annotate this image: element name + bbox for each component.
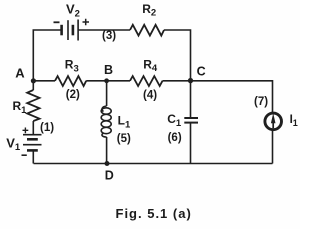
node A: [31, 78, 36, 83]
wire: V2 to R2: [78, 29, 130, 31]
node D: [105, 161, 110, 166]
node C: [188, 78, 193, 83]
capacitor C1: [184, 118, 198, 123]
battery V1 minus sign: [22, 154, 27, 156]
resistor R2: [130, 25, 164, 36]
wire: bottom rail: [34, 163, 273, 165]
battery V1 plus sign: [23, 128, 29, 134]
wire: current source bottom to bottom rail: [272, 131, 274, 164]
svg-text:R4: R4: [143, 57, 158, 74]
resistor R4: [130, 76, 163, 86]
wire: node A up to top-left corner then right to V2: [33, 30, 61, 81]
wire: R2 to top-right corner down to node C: [164, 30, 191, 81]
wire: A down to R1: [32, 81, 34, 90]
wire: V1 bottom to rail: [32, 150, 34, 163]
wire: C down to C1: [190, 81, 192, 118]
battery V2 minus sign: [54, 21, 60, 23]
current source arrow: [272, 120, 274, 128]
wire: B down to L1: [106, 81, 108, 106]
svg-text:(1): (1): [40, 122, 54, 134]
svg-text:C1: C1: [167, 112, 182, 129]
battery V2 (horizontal): [62, 20, 79, 41]
current source I1: [265, 113, 282, 130]
svg-text:(2): (2): [66, 89, 80, 101]
svg-text:R2: R2: [142, 2, 156, 19]
svg-text:V1: V1: [6, 135, 21, 153]
wire: A to R3: [33, 80, 55, 82]
resistor R1 (vertical): [27, 90, 39, 121]
svg-text:R3: R3: [65, 58, 79, 75]
svg-text:B: B: [104, 63, 113, 77]
wire: R1 to V1: [32, 121, 34, 134]
wire: R3 to B to R4: [86, 80, 130, 82]
svg-text:L1: L1: [118, 114, 131, 131]
node B: [104, 78, 109, 83]
wire: L1 to node D: [106, 137, 108, 164]
svg-text:(4): (4): [143, 89, 157, 101]
resistor R3: [55, 76, 86, 86]
inductor L1: [101, 106, 111, 137]
battery V1 (vertical): [23, 135, 42, 151]
svg-text:C: C: [197, 65, 206, 79]
svg-text:I1: I1: [290, 114, 298, 128]
svg-text:R1: R1: [13, 99, 28, 116]
wire: R4 to C and right to current-source corner, down to circle: [163, 81, 273, 113]
svg-text:A: A: [15, 65, 25, 80]
svg-text:Fig. 5.1 (a): Fig. 5.1 (a): [116, 206, 192, 221]
svg-text:(7): (7): [254, 96, 268, 108]
svg-text:D: D: [105, 169, 114, 183]
svg-text:(5): (5): [117, 133, 131, 145]
battery V2 plus sign: [83, 19, 90, 26]
wire: C1 to rail: [190, 123, 192, 164]
svg-text:(6): (6): [168, 132, 182, 144]
svg-text:V2: V2: [66, 2, 80, 20]
svg-text:(3): (3): [102, 30, 116, 42]
